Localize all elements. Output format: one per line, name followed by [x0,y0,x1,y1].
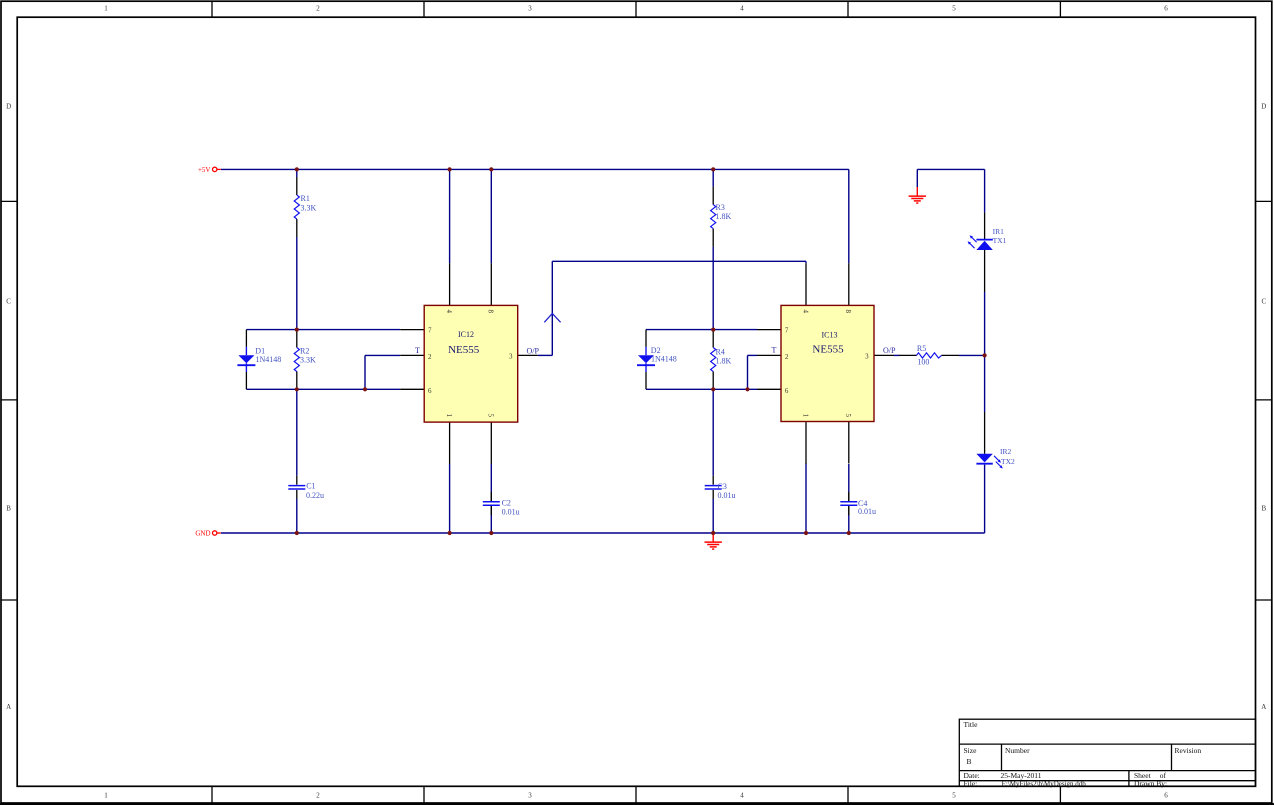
svg-text:T: T [415,346,420,355]
svg-text:1: 1 [104,5,108,13]
svg-text:7: 7 [785,327,789,335]
svg-text:Revision: Revision [1175,746,1202,755]
svg-text:5: 5 [952,791,956,799]
svg-text:D: D [1261,103,1266,111]
svg-text:5: 5 [487,414,495,418]
svg-text:B: B [1261,505,1266,513]
svg-text:Drawn By:: Drawn By: [1134,779,1167,788]
svg-text:C3: C3 [718,482,727,491]
svg-text:8: 8 [487,310,495,314]
svg-text:B: B [966,757,971,766]
svg-text:C: C [6,298,11,306]
svg-text:NE555: NE555 [812,343,844,355]
svg-text:A: A [1261,703,1266,711]
svg-text:0.01u: 0.01u [858,507,876,516]
svg-text:3: 3 [865,353,869,361]
svg-text:R3: R3 [716,203,725,212]
svg-text:7: 7 [428,327,432,335]
svg-text:C1: C1 [306,482,315,491]
svg-text:2: 2 [316,791,320,799]
svg-text:2: 2 [785,353,789,361]
svg-text:IR1: IR1 [993,227,1005,236]
svg-text:6: 6 [1164,791,1168,799]
svg-text:0.01u: 0.01u [502,508,520,517]
svg-text:1: 1 [445,414,453,418]
svg-text:A: A [6,703,11,711]
svg-text:100: 100 [917,357,929,366]
svg-text:4: 4 [445,310,453,314]
svg-text:O/P: O/P [883,346,896,355]
svg-text:B: B [6,505,11,513]
svg-text:TX2: TX2 [1001,457,1015,466]
svg-text:D: D [6,103,11,111]
svg-text:GND: GND [195,530,210,538]
svg-text:IC12: IC12 [458,330,474,339]
svg-text:1: 1 [801,414,809,418]
svg-text:8: 8 [844,310,852,314]
svg-text:5: 5 [952,5,956,13]
svg-text:Title: Title [964,720,979,729]
svg-text:3.3K: 3.3K [301,203,317,212]
svg-text:4: 4 [740,5,744,13]
svg-text:C: C [1261,298,1266,306]
svg-text:2: 2 [316,5,320,13]
svg-text:Number: Number [1005,746,1030,755]
svg-text:IC13: IC13 [822,330,838,339]
svg-text:R1: R1 [301,194,310,203]
svg-text:IR2: IR2 [1000,447,1012,456]
svg-text:1N4148: 1N4148 [256,355,282,364]
svg-text:3: 3 [509,353,513,361]
svg-text:1.8K: 1.8K [716,356,732,365]
svg-text:5: 5 [844,414,852,418]
svg-text:0.01u: 0.01u [718,491,736,500]
svg-text:3: 3 [528,5,532,13]
svg-text:1: 1 [104,791,108,799]
svg-text:T: T [772,345,777,354]
svg-text:NE555: NE555 [448,344,480,356]
svg-text:File:: File: [964,779,978,788]
svg-text:R2: R2 [300,346,309,355]
svg-text:6: 6 [1164,5,1168,13]
svg-text:6: 6 [785,387,789,395]
svg-text:0.22u: 0.22u [306,491,324,500]
svg-text:1N4148: 1N4148 [651,354,677,363]
svg-text:2: 2 [428,353,432,361]
svg-text:Size: Size [964,746,978,755]
svg-text:O/P: O/P [527,347,540,356]
svg-text:3: 3 [528,791,532,799]
svg-text:C2: C2 [502,498,511,507]
svg-text:1.8K: 1.8K [716,212,732,221]
svg-text:+5V: +5V [198,166,211,174]
svg-text:R5: R5 [917,344,926,353]
svg-text:R4: R4 [716,347,725,356]
svg-text:TX1: TX1 [993,236,1007,245]
svg-text:4: 4 [740,791,744,799]
svg-text:4: 4 [801,310,809,314]
svg-text:6: 6 [428,387,432,395]
svg-text:25-May-2011: 25-May-2011 [1001,771,1042,780]
svg-text:3.3K: 3.3K [300,355,316,364]
svg-text:E:\MyFiles2\b\MyDesign.ddb: E:\MyFiles2\b\MyDesign.ddb [1002,780,1087,788]
